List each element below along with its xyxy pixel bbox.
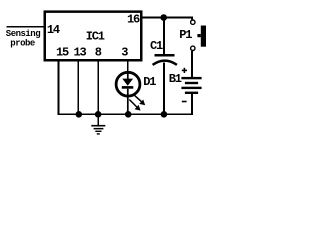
node junction pin13/bus — [76, 111, 83, 118]
battery B1 — [181, 77, 201, 94]
wire battery minus to bus — [59, 60, 193, 114]
op-amp U1 IC body — [45, 12, 142, 61]
capacitor C1 — [153, 18, 177, 115]
LED emission arrow 1 — [133, 94, 145, 105]
svg-text:8: 8 — [95, 46, 102, 60]
LED D1 — [116, 72, 140, 114]
svg-text:P1: P1 — [179, 28, 192, 42]
wire pin 13 down — [77, 60, 79, 114]
wire pin 16 to P1 — [143, 18, 193, 20]
wire pin 8 down — [97, 60, 99, 114]
pushbutton P1 — [191, 20, 206, 51]
svg-text:probe: probe — [10, 39, 35, 49]
node junction pin16/C1 — [160, 14, 167, 21]
svg-text:13: 13 — [74, 46, 87, 60]
wire sensing probe to pin 14 — [6, 26, 44, 28]
node junction LED/bus — [125, 111, 132, 118]
LED emission arrow 2 — [129, 100, 140, 111]
node junction C1/bus — [161, 111, 168, 118]
svg-text:14: 14 — [47, 23, 60, 37]
wire P1 to battery — [191, 51, 193, 78]
svg-text:B1: B1 — [169, 72, 182, 86]
svg-text:16: 16 — [127, 13, 140, 27]
plus polarity mark — [182, 68, 187, 73]
svg-text:C1: C1 — [150, 39, 163, 53]
svg-text:15: 15 — [56, 46, 69, 60]
ground — [91, 114, 105, 134]
node junction pin8/bus — [95, 111, 102, 118]
svg-text:IC1: IC1 — [86, 30, 105, 44]
svg-text:D1: D1 — [143, 75, 156, 89]
svg-text:3: 3 — [121, 46, 128, 60]
minus polarity mark — [182, 101, 187, 103]
wire pin 3 to LED — [127, 60, 129, 73]
